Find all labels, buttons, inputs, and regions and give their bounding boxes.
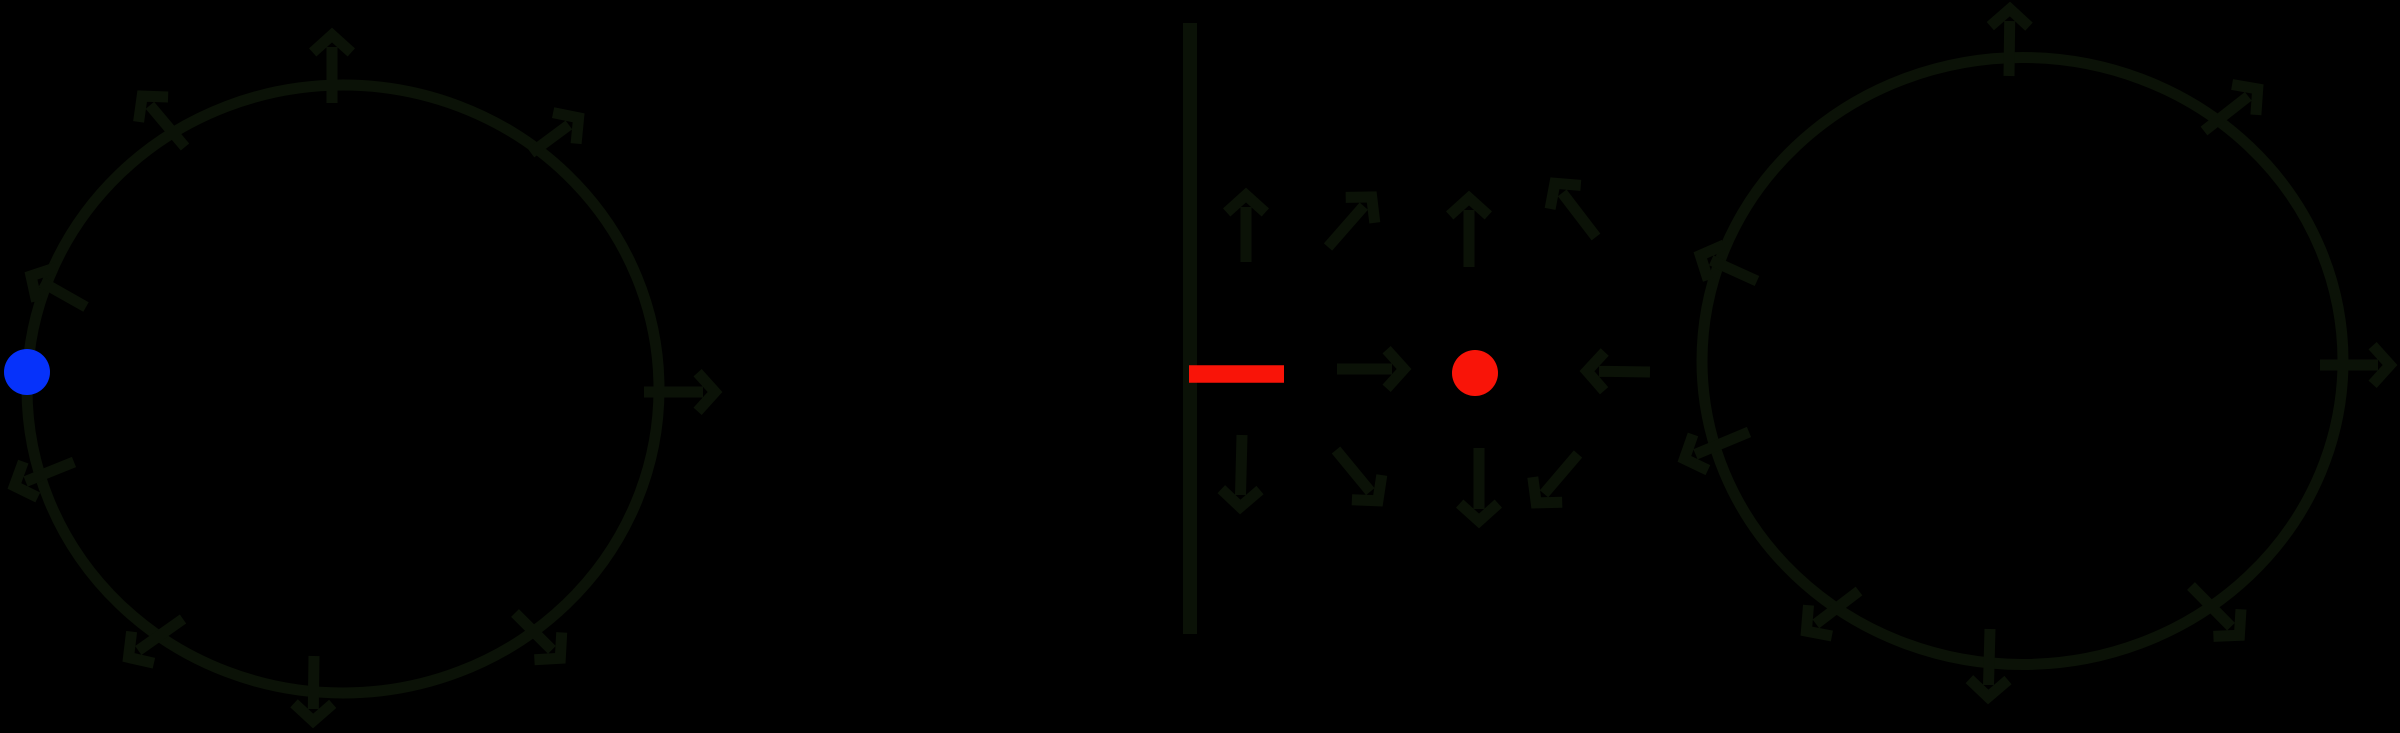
middle field arrow top row 2 (up-right) <box>1328 197 1375 247</box>
left circle field arrow 1:30 <box>531 113 579 153</box>
right circle field arrow upper-left flank <box>1700 245 1757 281</box>
right circle field arrow 1:30 <box>2204 85 2258 132</box>
blue charge dot on left circle <box>4 349 50 395</box>
left circle field arrow 7:30 <box>129 619 184 663</box>
right circle field arrow 4:30 <box>2191 586 2241 636</box>
right circle field arrow 3 o'clock <box>2320 346 2390 385</box>
red positive charge dot <box>1452 350 1498 396</box>
middle field arrow bottom row 3 (down) <box>1460 448 1499 521</box>
left charged circle outline <box>27 85 659 693</box>
left circle field arrow 12 o'clock <box>313 35 352 103</box>
right charged circle outline <box>1702 58 2343 665</box>
middle field arrow top row 1 (up) <box>1227 195 1266 262</box>
right circle field arrow 7:30 <box>1806 591 1859 636</box>
middle field arrow mid row left (right) <box>1337 350 1404 389</box>
middle field arrow bottom row 2 (down-right) <box>1336 450 1382 501</box>
left circle field arrow 3 o'clock <box>644 373 715 412</box>
conducting plane (vertical line) <box>1183 23 1197 634</box>
middle field arrow mid row right (left) <box>1587 352 1650 391</box>
left circle field arrow 10:30 <box>139 96 185 147</box>
middle field arrow bottom row 1 (down) <box>1221 435 1260 507</box>
middle field arrow top row 4 (up-left) <box>1550 183 1596 237</box>
middle field arrow top row 3 (up) <box>1450 198 1489 267</box>
left circle field arrow upper-left flank <box>31 268 86 307</box>
red negative charge dash on plane <box>1189 365 1284 383</box>
right circle field arrow lower-left flank <box>1684 432 1749 470</box>
right circle field arrow 12 o'clock <box>1990 9 2029 76</box>
left circle field arrow 4:30 <box>515 613 562 660</box>
left circle field arrow 6 o'clock <box>294 656 333 721</box>
middle field arrow bottom row 4 (down-left) <box>1533 454 1578 503</box>
left circle field arrow lower-left flank <box>14 462 74 498</box>
right circle field arrow 6 o'clock <box>1969 629 2008 697</box>
